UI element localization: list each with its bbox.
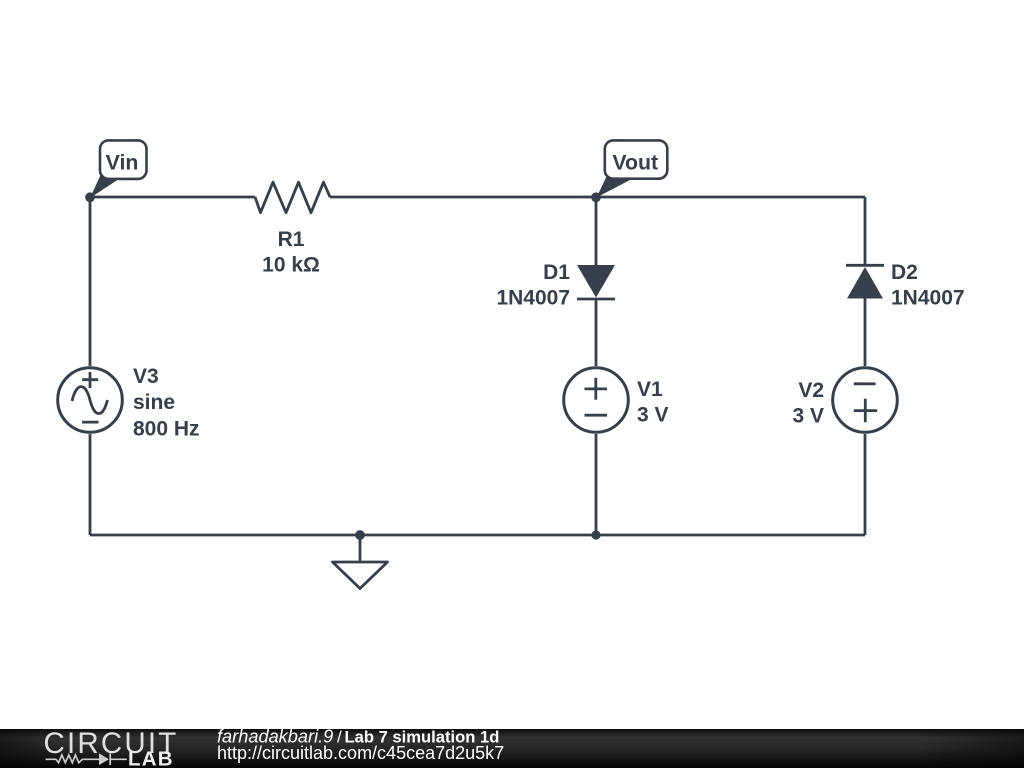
svg-text:3 V: 3 V [637, 404, 669, 427]
svg-text:Vout: Vout [612, 151, 658, 175]
svg-text:V2: V2 [798, 379, 824, 402]
svg-text:1N4007: 1N4007 [891, 287, 965, 310]
svg-text:http://circuitlab.com/c45cea7d: http://circuitlab.com/c45cea7d2u5k7 [217, 743, 504, 763]
svg-text:Vin: Vin [106, 150, 139, 174]
svg-text:LAB: LAB [128, 748, 174, 768]
svg-text:D1: D1 [543, 261, 570, 284]
svg-text:3 V: 3 V [792, 405, 824, 428]
svg-text:1N4007: 1N4007 [496, 287, 570, 310]
svg-text:D2: D2 [891, 261, 918, 284]
svg-text:800 Hz: 800 Hz [133, 417, 200, 440]
svg-text:sine: sine [133, 391, 175, 414]
svg-text:V1: V1 [637, 378, 663, 401]
svg-text:10 kΩ: 10 kΩ [262, 254, 320, 277]
svg-text:V3: V3 [133, 365, 159, 388]
svg-text:R1: R1 [278, 228, 305, 251]
